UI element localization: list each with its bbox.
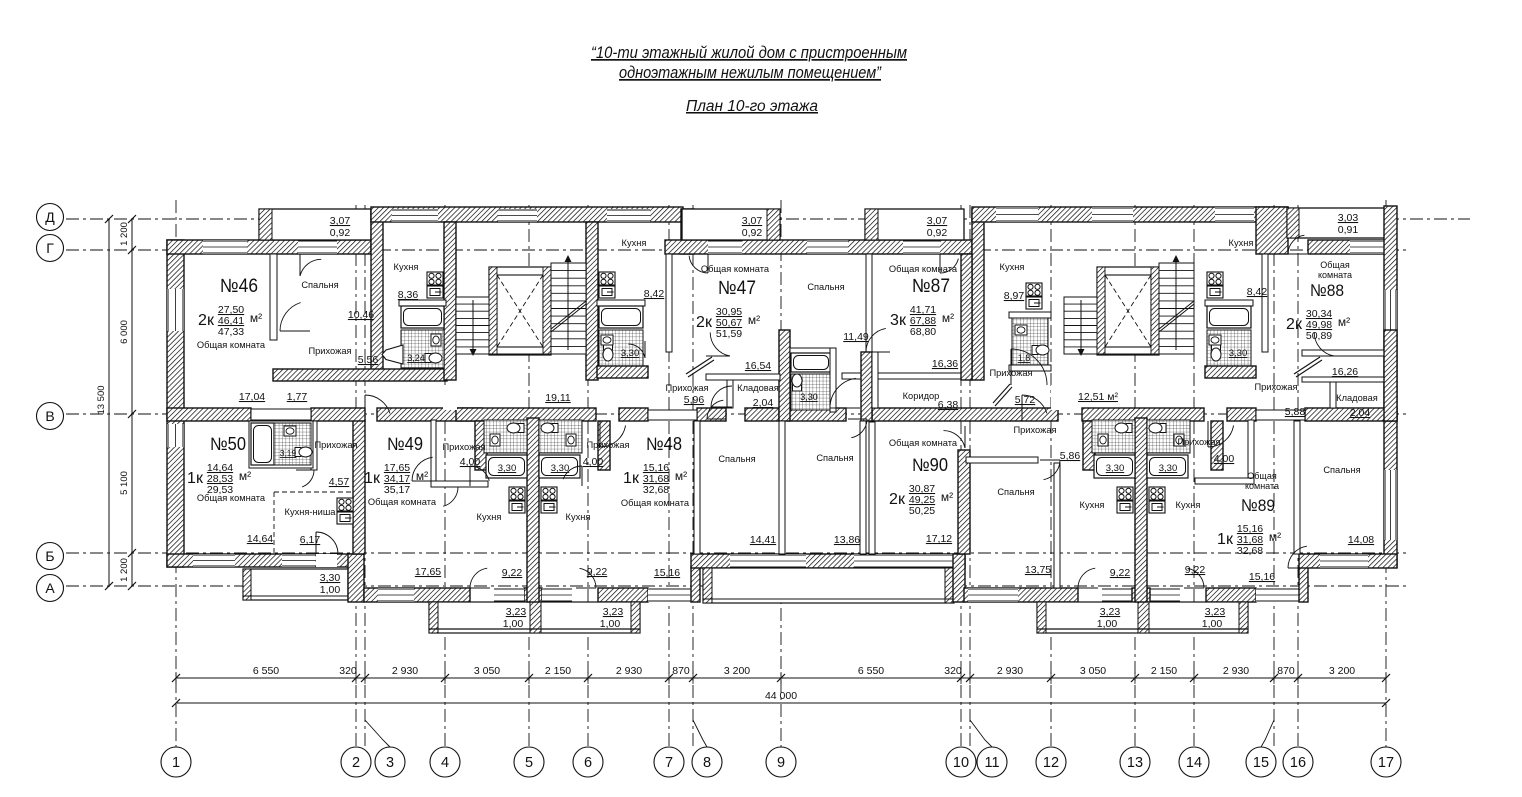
svg-text:3,19: 3,19 xyxy=(280,448,297,458)
svg-text:16,36: 16,36 xyxy=(932,358,958,370)
svg-text:3,24: 3,24 xyxy=(407,353,425,363)
partition bedrooms 87 xyxy=(860,421,866,554)
stair core right wall xyxy=(586,222,598,380)
svg-text:1,8: 1,8 xyxy=(1018,353,1031,363)
wall step 89 right xyxy=(1299,567,1308,602)
svg-text:6,38: 6,38 xyxy=(938,399,959,411)
opening 50 balcony door xyxy=(316,554,337,567)
svg-text:3,30: 3,30 xyxy=(621,348,640,359)
bottom wall apartment 50 xyxy=(167,554,352,567)
svg-text:5: 5 xyxy=(525,755,533,771)
svg-text:4: 4 xyxy=(441,755,449,771)
sink 47 xyxy=(601,335,613,345)
door 89 entry xyxy=(1208,421,1234,447)
wall axis 10 vertical xyxy=(953,554,965,602)
pod88 bottom wall xyxy=(1205,366,1256,378)
svg-text:6 550: 6 550 xyxy=(858,665,884,677)
window right wall lower xyxy=(1384,470,1397,540)
svg-text:3 200: 3 200 xyxy=(724,665,750,677)
opening stair wall 87 xyxy=(1051,385,1065,410)
axis line А xyxy=(66,585,1408,587)
kitchen 89 top wall xyxy=(1195,478,1254,484)
window in left wall lower xyxy=(167,424,184,447)
svg-text:2 930: 2 930 xyxy=(616,665,642,677)
left dimension chain line xyxy=(128,215,136,590)
window kitchen 88 top xyxy=(1215,207,1254,222)
door kitchen 49 xyxy=(438,487,458,506)
svg-text:м²: м² xyxy=(675,469,687,483)
svg-text:3,23: 3,23 xyxy=(1100,606,1121,618)
window 87 living room xyxy=(903,240,940,254)
svg-text:19,11: 19,11 xyxy=(545,392,571,404)
svg-text:4,00: 4,00 xyxy=(583,456,604,468)
partition 47 room bottom xyxy=(706,374,780,380)
window bedroom 47 bottom xyxy=(730,554,806,568)
prihozhaya 46 bottom wall xyxy=(273,369,447,381)
stair flight left lower xyxy=(456,297,489,354)
svg-text:3,30: 3,30 xyxy=(498,463,517,474)
bath floor tiles right pair A xyxy=(1092,420,1135,453)
svg-text:870: 870 xyxy=(1277,665,1295,677)
stair landing right xyxy=(1064,353,1194,355)
spine 377-447 xyxy=(377,408,482,421)
axis line 10 xyxy=(960,205,962,747)
bottom wall bedroom 88 xyxy=(1299,554,1397,568)
spine pod50 top xyxy=(251,409,311,420)
wall axis4 lower xyxy=(475,421,487,470)
svg-text:Прихожая: Прихожая xyxy=(1177,437,1220,447)
axis line 14 xyxy=(1193,205,1195,747)
partition kitchen88/room88 xyxy=(1262,254,1268,352)
axis line 11 xyxy=(969,205,971,747)
bathtub 46 xyxy=(401,306,444,328)
bath floor 88 xyxy=(1207,330,1251,366)
stair arrow left xyxy=(470,255,587,356)
svg-text:870: 870 xyxy=(672,665,690,677)
axis line 8 xyxy=(692,205,694,747)
wall axis 2 vertical xyxy=(348,554,364,602)
window threshold 48 balcony xyxy=(542,588,572,602)
spine 619-648 xyxy=(619,408,648,421)
svg-text:2 150: 2 150 xyxy=(1151,665,1177,677)
entry door leaf 46 xyxy=(382,345,403,364)
svg-text:10: 10 xyxy=(953,755,969,771)
svg-text:5,56: 5,56 xyxy=(358,354,379,366)
window bedroom 88 bottom xyxy=(1320,554,1368,568)
axis bubble 1 xyxy=(161,747,191,777)
svg-text:Спальня: Спальня xyxy=(301,280,338,290)
leader axis 3 xyxy=(365,720,390,747)
partition 89 prihozh xyxy=(1248,420,1254,481)
window 50 living room a xyxy=(193,554,235,567)
svg-text:м²: м² xyxy=(250,311,262,325)
door 90 entry xyxy=(1022,395,1047,421)
axis bubble 4 xyxy=(430,747,460,777)
svg-text:Д: Д xyxy=(45,209,55,225)
sink right pair B xyxy=(1174,434,1184,446)
svg-text:7: 7 xyxy=(665,755,673,771)
svg-text:1,77: 1,77 xyxy=(287,391,308,403)
svg-text:Кладовая: Кладовая xyxy=(737,383,779,393)
svg-text:комната: комната xyxy=(1245,481,1279,491)
balcony bottom kitchens left pair xyxy=(429,602,640,633)
elevator shaft left xyxy=(489,267,551,355)
spine thin 48 xyxy=(648,410,697,420)
axis line 13 xyxy=(1134,205,1136,747)
window threshold 49 balcony xyxy=(494,588,524,602)
step wall kitchen 88 right xyxy=(1256,207,1288,254)
svg-text:м²: м² xyxy=(416,469,428,483)
door bedroom47 b xyxy=(848,419,867,438)
svg-text:50,89: 50,89 xyxy=(1306,330,1332,342)
svg-text:1 200: 1 200 xyxy=(119,558,130,582)
svg-text:№88: №88 xyxy=(1310,281,1344,300)
svg-text:3 200: 3 200 xyxy=(1329,665,1355,677)
window stairwell xyxy=(498,209,537,222)
svg-text:1к: 1к xyxy=(364,470,381,487)
entry door leaf 90 xyxy=(993,384,1012,406)
window 50 living room b xyxy=(282,554,315,567)
toilet 88 xyxy=(1211,344,1221,361)
axis line 16 xyxy=(1297,205,1299,747)
svg-text:Спальня: Спальня xyxy=(1323,465,1360,475)
axis bubble 16 xyxy=(1283,747,1313,777)
svg-text:5 100: 5 100 xyxy=(119,471,130,495)
door 47 living xyxy=(706,332,730,356)
bathtub right pair A xyxy=(1094,455,1135,478)
axis bubble 13 xyxy=(1120,747,1150,777)
sink 87 xyxy=(1015,325,1027,335)
overall dimension line xyxy=(172,699,1390,707)
stair flight left upper xyxy=(551,263,586,354)
spine 745-779 xyxy=(745,408,779,421)
door 88 bedroom xyxy=(1288,546,1310,568)
partition kitchen47/room47 xyxy=(666,254,672,352)
svg-text:м²: м² xyxy=(942,311,954,325)
wall 90 right xyxy=(958,450,970,554)
svg-text:0,91: 0,91 xyxy=(1338,224,1359,236)
kladovaya 47 left xyxy=(727,380,733,408)
window bedroom 87 bottom xyxy=(854,554,956,568)
svg-text:6: 6 xyxy=(584,755,592,771)
svg-text:1к: 1к xyxy=(187,470,204,487)
toilet left pair B xyxy=(541,423,558,433)
axis line В xyxy=(66,413,1408,415)
svg-text:№46: №46 xyxy=(220,276,258,297)
stair core left wall xyxy=(444,222,456,380)
svg-text:5,72: 5,72 xyxy=(1015,394,1036,406)
center wall right kitchen pods xyxy=(1135,418,1147,602)
stove 46 xyxy=(427,272,443,298)
bottom wall pier right kitchens xyxy=(1132,588,1150,602)
window 46 bedroom xyxy=(298,240,337,254)
door 46 balcony xyxy=(300,254,321,276)
svg-text:2к: 2к xyxy=(1286,316,1303,333)
balcony top 87 xyxy=(865,209,964,240)
top wall stair block xyxy=(371,207,683,222)
bathtub right pair B xyxy=(1147,455,1188,478)
top wall right stair block xyxy=(972,207,1288,222)
leader axis 11 xyxy=(970,720,992,747)
wall axis12 lower xyxy=(1083,421,1095,470)
svg-text:9,22: 9,22 xyxy=(1110,567,1131,579)
svg-text:2 930: 2 930 xyxy=(1223,665,1249,677)
partition 90 left xyxy=(869,422,875,554)
svg-text:одноэтажным нежилым помещением: одноэтажным нежилым помещением” xyxy=(619,63,882,82)
window bedroom 47-87 xyxy=(807,240,848,254)
bathtub left pair A xyxy=(486,455,527,478)
top wall apartment 88 xyxy=(1308,240,1390,254)
stair landing left xyxy=(456,353,586,355)
svg-text:Общая комната: Общая комната xyxy=(197,340,266,350)
svg-text:Прихожая: Прихожая xyxy=(442,442,485,452)
axis line 7 xyxy=(668,205,670,747)
spine 697-726 xyxy=(697,408,726,421)
svg-text:1к: 1к xyxy=(1217,531,1234,548)
axis line 4 xyxy=(444,205,446,747)
window in left wall upper xyxy=(167,289,184,331)
svg-text:0,92: 0,92 xyxy=(927,227,948,239)
svg-text:51,59: 51,59 xyxy=(716,328,742,340)
axis bubble Д xyxy=(37,204,64,231)
toilet right pair B xyxy=(1149,423,1166,433)
svg-text:Кухня: Кухня xyxy=(566,512,591,522)
spine 456-596 xyxy=(456,408,596,421)
svg-text:9: 9 xyxy=(777,755,785,771)
svg-text:3к: 3к xyxy=(890,312,907,329)
svg-text:№89: №89 xyxy=(1241,496,1275,515)
bottom wall pier kitchens xyxy=(524,588,542,602)
bottom wall apartment 89 xyxy=(1206,588,1256,602)
svg-text:1,00: 1,00 xyxy=(320,584,341,596)
door 49 entry xyxy=(365,395,390,421)
door 89 balcony xyxy=(1184,568,1204,588)
door prihozh 87 xyxy=(1011,349,1047,385)
window 47 living room xyxy=(708,240,742,254)
door 47 balcony xyxy=(689,254,708,273)
axis bubble 8 xyxy=(692,747,722,777)
terrace bottom bedrooms xyxy=(703,568,954,603)
svg-text:Кухня: Кухня xyxy=(477,512,502,522)
svg-text:В: В xyxy=(45,408,54,424)
spine under 46 xyxy=(167,408,251,421)
bottom wall bedrooms 47-90 xyxy=(691,554,965,568)
svg-text:17,04: 17,04 xyxy=(239,391,265,403)
door 49 room xyxy=(412,457,436,481)
svg-text:м²: м² xyxy=(1338,315,1350,329)
stove right pair A xyxy=(1117,487,1133,513)
spine 311-365 xyxy=(311,408,365,421)
svg-text:15,16: 15,16 xyxy=(1249,571,1275,583)
svg-text:Общая комната: Общая комната xyxy=(889,438,958,448)
window kitchen 47 top xyxy=(607,209,650,222)
stair flight right upper xyxy=(1159,263,1194,354)
svg-text:0,92: 0,92 xyxy=(742,227,763,239)
svg-text:3,23: 3,23 xyxy=(506,606,527,618)
axis line 17 xyxy=(1385,200,1387,747)
kladovaya 88 left xyxy=(1330,382,1336,408)
entry door leaf 88 xyxy=(1294,357,1322,377)
wall mid 861 xyxy=(861,352,872,421)
bathtub left pair B xyxy=(539,455,580,478)
sink 88 xyxy=(1209,335,1221,345)
axis line 2 xyxy=(355,205,357,747)
axis line 15 xyxy=(1273,205,1275,747)
svg-text:3,30: 3,30 xyxy=(551,463,570,474)
bath floor 47 xyxy=(599,330,643,366)
svg-text:5,88: 5,88 xyxy=(1285,406,1306,418)
svg-text:1,00: 1,00 xyxy=(503,618,524,630)
svg-text:9,22: 9,22 xyxy=(502,567,523,579)
svg-text:1,00: 1,00 xyxy=(600,618,621,630)
balcony top 47 xyxy=(682,209,780,240)
bottom wall bedroom 90 xyxy=(964,588,1078,602)
wall 88 prihozh right xyxy=(1384,330,1397,421)
stove 88 xyxy=(1207,272,1223,298)
svg-text:8,42: 8,42 xyxy=(644,288,665,300)
door 49 balcony xyxy=(470,568,490,588)
sink right pair A xyxy=(1098,434,1108,446)
svg-text:47,33: 47,33 xyxy=(218,326,244,338)
sink left pair B xyxy=(566,434,576,446)
window kitchen 87 top xyxy=(996,207,1038,222)
bottom wall apartment 48 xyxy=(598,588,648,602)
partition 49 prihozh xyxy=(431,420,436,481)
bath floor 50 xyxy=(274,423,311,465)
svg-text:Спальня: Спальня xyxy=(718,454,755,464)
svg-text:13: 13 xyxy=(1127,755,1143,771)
svg-text:Прихожая: Прихожая xyxy=(989,368,1032,378)
svg-text:3,07: 3,07 xyxy=(927,215,948,227)
window bedroom 90 xyxy=(968,588,1018,602)
axis bubble 2 xyxy=(341,747,371,777)
svg-text:50,25: 50,25 xyxy=(909,505,935,517)
svg-text:17,12: 17,12 xyxy=(926,533,952,545)
svg-text:14,64: 14,64 xyxy=(247,533,273,545)
toilet 90 xyxy=(792,374,802,391)
svg-text:Общая: Общая xyxy=(1320,260,1350,270)
svg-text:“10-ти этажный жилой дом с при: “10-ти этажный жилой дом с пристроенным xyxy=(591,43,907,62)
bathtub 90 xyxy=(791,353,831,372)
svg-text:1 200: 1 200 xyxy=(119,222,130,246)
svg-text:Общая комната: Общая комната xyxy=(701,264,770,274)
elevator shaft right xyxy=(1097,267,1159,355)
axis bubble В xyxy=(37,403,64,430)
svg-text:Общая комната: Общая комната xyxy=(889,264,958,274)
svg-text:15,16: 15,16 xyxy=(654,567,680,579)
svg-text:4,00: 4,00 xyxy=(1214,453,1235,465)
partition bedrooms 47 xyxy=(779,421,785,554)
svg-text:2к: 2к xyxy=(889,491,906,508)
svg-text:13,86: 13,86 xyxy=(834,534,860,546)
door kitchen48 entry xyxy=(563,466,582,486)
svg-text:3,30: 3,30 xyxy=(800,392,818,402)
door pod47 prihozh xyxy=(628,341,645,358)
door 48 entry xyxy=(600,421,626,447)
axis bubble 12 xyxy=(1036,747,1066,777)
svg-text:Кладовая: Кладовая xyxy=(1336,393,1378,403)
axis bubble Г xyxy=(37,235,64,262)
svg-text:комната: комната xyxy=(1318,270,1352,280)
bath floor 87 xyxy=(1012,318,1048,365)
svg-text:68,80: 68,80 xyxy=(910,326,936,338)
axis bubble 14 xyxy=(1179,747,1209,777)
axis bubble А xyxy=(37,575,64,602)
door 90 bedroom xyxy=(1040,460,1060,480)
svg-text:Спальня: Спальня xyxy=(997,487,1034,497)
sink left pair A xyxy=(490,434,500,446)
kladovaya 88 top xyxy=(1302,377,1390,382)
window 48 bottom xyxy=(648,588,691,602)
svg-text:Кухня: Кухня xyxy=(622,238,647,248)
bath floor tiles left pair A xyxy=(484,420,527,453)
partition 87 room left xyxy=(872,352,878,408)
svg-text:16,54: 16,54 xyxy=(745,360,771,372)
axis line 1 xyxy=(175,200,177,747)
leader axis 15 xyxy=(1261,720,1274,747)
partition 48/bedroom xyxy=(694,421,700,554)
svg-text:11: 11 xyxy=(984,755,999,771)
bathtub 50 xyxy=(251,423,274,465)
bedroom 90 right wall xyxy=(1054,463,1060,588)
svg-text:А: А xyxy=(45,580,55,596)
window 49 xyxy=(378,588,414,602)
svg-text:0,92: 0,92 xyxy=(330,227,351,239)
axis line Б xyxy=(66,552,1408,554)
toilet 50 xyxy=(295,447,312,457)
spine 872-1058 xyxy=(872,408,1058,421)
spine 788-846 xyxy=(788,408,846,421)
svg-text:3,30: 3,30 xyxy=(1159,463,1178,474)
axis line 12 xyxy=(1050,205,1052,747)
svg-text:32,68: 32,68 xyxy=(1237,545,1263,557)
window right wall upper xyxy=(1384,290,1397,330)
window threshold 90 balcony xyxy=(1102,588,1132,602)
svg-text:Кухня: Кухня xyxy=(1176,500,1201,510)
svg-text:13 500: 13 500 xyxy=(96,385,107,414)
svg-text:Кухня: Кухня xyxy=(1080,500,1105,510)
svg-text:2 930: 2 930 xyxy=(997,665,1023,677)
svg-text:14: 14 xyxy=(1186,755,1202,771)
window right stairwell xyxy=(1092,207,1133,222)
svg-text:2 150: 2 150 xyxy=(545,665,571,677)
svg-text:1: 1 xyxy=(172,755,180,771)
svg-text:320: 320 xyxy=(339,665,357,677)
svg-text:5,96: 5,96 xyxy=(684,394,705,406)
svg-text:Прихожая: Прихожая xyxy=(665,383,708,393)
svg-text:3,30: 3,30 xyxy=(1229,348,1248,359)
spine 1305-1397 xyxy=(1305,408,1397,421)
outer wall left (axis 1) xyxy=(167,240,184,567)
entry door leaf 47 xyxy=(686,357,714,377)
svg-text:2,04: 2,04 xyxy=(753,397,774,409)
toilet left pair A xyxy=(507,423,524,433)
svg-text:3 050: 3 050 xyxy=(1080,665,1106,677)
svg-text:16,26: 16,26 xyxy=(1332,366,1358,378)
stove left pair B xyxy=(541,487,557,513)
svg-text:6 550: 6 550 xyxy=(253,665,279,677)
window kitchen 46 top xyxy=(392,209,438,222)
svg-text:9,22: 9,22 xyxy=(587,566,608,578)
door 50 bath xyxy=(296,470,314,487)
spine 1227-1256 xyxy=(1227,408,1256,421)
svg-text:Кухня-ниша: Кухня-ниша xyxy=(285,507,337,517)
top wall apartment 46 xyxy=(167,240,371,254)
svg-text:2,04: 2,04 xyxy=(1350,407,1371,419)
bottom dimension chain line xyxy=(172,672,1390,684)
svg-text:м²: м² xyxy=(1269,530,1281,544)
svg-text:3,30: 3,30 xyxy=(1106,463,1125,474)
